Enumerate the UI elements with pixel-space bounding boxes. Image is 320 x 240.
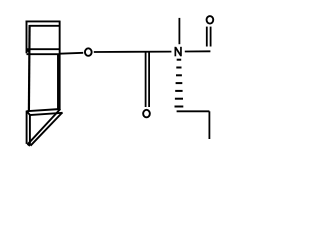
label formyl O <box>207 16 214 24</box>
cage rectangle: inner right edge <box>57 54 59 110</box>
cage square: front top edge <box>26 20 61 22</box>
cage square: back top edge <box>29 25 59 27</box>
cage square: back bottom edge <box>27 48 60 50</box>
cage square: corner tick <box>27 50 30 52</box>
label ester O <box>85 48 92 56</box>
bond ester O to carbamate C to N <box>94 51 172 53</box>
cage triangle: front left edge <box>26 111 28 144</box>
cage triangle: back top edge <box>30 113 63 115</box>
cage rectangle: right edge <box>59 21 61 110</box>
cage triangle: front hypotenuse <box>28 109 60 144</box>
carbamate C=O double bond line 2 <box>148 52 150 107</box>
formyl C=O double bond line 2 <box>210 27 212 47</box>
cage rectangle: left edge <box>28 25 31 111</box>
cage square: front left edge <box>26 21 28 54</box>
label carbamate O <box>143 110 150 118</box>
label N <box>175 47 181 57</box>
bond ring to ester O <box>60 52 83 55</box>
bond N to formyl C <box>185 50 211 52</box>
bond chain horizontal CH2-CH2 <box>177 110 210 112</box>
cage triangle: back left edge <box>29 114 31 145</box>
bond N to methyl <box>178 18 180 44</box>
cage triangle: back hypotenuse <box>31 113 63 146</box>
cage triangle: front top edge <box>27 109 61 111</box>
cage triangle: bottom corner tick <box>27 144 30 146</box>
cage square: front bottom edge <box>27 53 60 55</box>
hashed wedge bond N to chain <box>175 59 184 108</box>
formyl C=O double bond line 1 <box>206 27 208 47</box>
carbamate C=O double bond line 1 <box>145 52 147 107</box>
cage triangle: top-left corner tick <box>27 111 30 114</box>
bond chain vertical CH2-CH3 <box>208 111 210 139</box>
